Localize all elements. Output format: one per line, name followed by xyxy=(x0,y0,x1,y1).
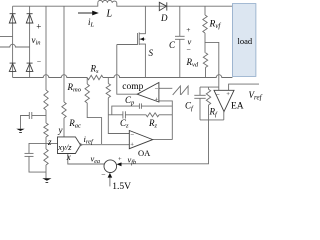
svg-text:+: + xyxy=(118,156,122,163)
svg-text:+: + xyxy=(130,141,134,148)
svg-text:+: + xyxy=(155,97,159,104)
svg-text:–: – xyxy=(101,170,106,178)
svg-text:y: y xyxy=(58,125,63,135)
svg-text:D: D xyxy=(160,13,168,23)
svg-text:z: z xyxy=(47,137,52,147)
svg-text:+: + xyxy=(186,25,190,34)
svg-text:C: C xyxy=(169,40,176,50)
svg-text:1.5V: 1.5V xyxy=(112,182,131,191)
svg-text:comp: comp xyxy=(122,82,143,92)
svg-text:xy/z: xy/z xyxy=(57,142,72,152)
svg-text:+: + xyxy=(36,22,41,32)
svg-text:–: – xyxy=(186,46,191,54)
svg-text:L: L xyxy=(106,9,113,20)
svg-text:EA: EA xyxy=(231,102,244,112)
svg-text:x: x xyxy=(66,152,71,162)
svg-text:–: – xyxy=(36,58,41,66)
svg-text:load: load xyxy=(238,36,253,46)
svg-text:OA: OA xyxy=(138,148,151,158)
svg-text:S: S xyxy=(149,48,154,58)
svg-text:+: + xyxy=(226,91,230,98)
